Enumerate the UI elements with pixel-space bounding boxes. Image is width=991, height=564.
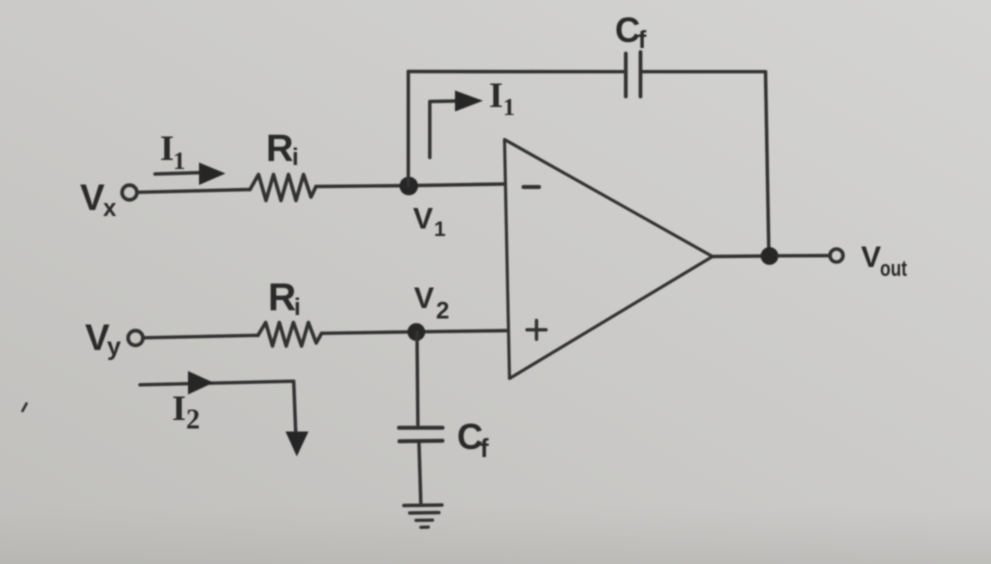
svg-text:f: f	[480, 433, 489, 463]
wire feedback top (right of Cf)	[641, 70, 766, 73]
svg-text:y: y	[107, 333, 121, 361]
wire node V1 to op-amp inverting input	[409, 184, 505, 186]
svg-text:I: I	[489, 75, 503, 115]
resistor R2 (Ri, lower)	[258, 323, 322, 347]
svg-text:V: V	[80, 177, 105, 218]
svg-text:2: 2	[436, 298, 449, 325]
wire op-amp output to node	[713, 254, 770, 258]
svg-text:V: V	[861, 241, 881, 274]
wire node V2 down to capacitor C2	[415, 332, 419, 425]
wire capacitor C2 to ground	[419, 444, 421, 503]
svg-text:R: R	[268, 276, 296, 319]
output terminal Vout (open circle)	[830, 249, 843, 262]
wire R1 to node V1	[316, 184, 409, 188]
capacitor Cf (feedback) left plate	[624, 54, 628, 97]
capacitor Cf (feedback) right plate	[639, 52, 643, 97]
current arrow I2 down head	[286, 432, 309, 457]
resistor R1 (Ri, upper)	[250, 175, 316, 201]
svg-text:I: I	[160, 128, 174, 168]
wire node to Vout terminal	[778, 254, 830, 258]
stray pen mark	[23, 404, 27, 412]
wire Vy terminal to resistor R2	[143, 335, 258, 338]
svg-text:1: 1	[503, 95, 515, 121]
op-amp plus sign	[527, 328, 546, 331]
ground symbol	[404, 503, 442, 507]
svg-text:R: R	[266, 128, 293, 170]
wire Vx terminal to resistor R1	[137, 190, 250, 193]
svg-text:out: out	[880, 256, 908, 281]
capacitor Cf (lower) bottom plate	[400, 439, 443, 444]
svg-text:1: 1	[434, 218, 446, 241]
svg-text:V: V	[413, 203, 433, 236]
input terminal Vy (open circle)	[128, 331, 143, 346]
node V1 (junction dot)	[400, 177, 419, 196]
svg-text:i: i	[294, 294, 301, 321]
wire feedback drop to output node	[766, 72, 769, 250]
svg-text:f: f	[638, 26, 647, 54]
output node (junction dot)	[761, 247, 779, 265]
capacitor Cf (lower) top plate	[399, 426, 443, 430]
svg-text:i: i	[292, 144, 299, 171]
svg-text:1: 1	[173, 148, 186, 175]
wire feedback top (left of Cf)	[408, 70, 625, 74]
wire R2 to node V2	[322, 332, 416, 334]
svg-text:x: x	[103, 195, 117, 222]
svg-text:V: V	[414, 282, 434, 315]
current arrow I2 shaft	[140, 381, 296, 432]
op-amp minus sign	[524, 185, 540, 189]
wire node V2 to op-amp non-inverting input	[416, 331, 508, 332]
input terminal Vx (open circle)	[122, 185, 137, 200]
op-amp U1 triangle	[505, 140, 713, 379]
wire feedback riser from node V1 up	[407, 72, 410, 186]
svg-text:2: 2	[186, 405, 200, 436]
svg-text:C: C	[615, 11, 640, 50]
current arrow I1 (over input wire)	[155, 173, 201, 174]
current arrow I1 hook (at summing node)	[430, 101, 456, 158]
svg-text:I: I	[172, 388, 186, 428]
node V2 (junction dot)	[407, 323, 425, 341]
